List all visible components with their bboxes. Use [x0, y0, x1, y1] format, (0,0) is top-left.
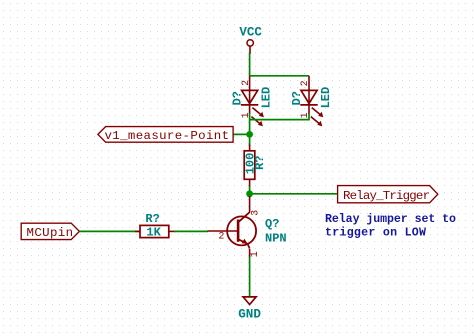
resistor R? 1K [135, 225, 175, 237]
power symbol VCC [239, 26, 262, 55]
global label MCUpin [21, 223, 79, 240]
svg-text:D?: D? [230, 91, 244, 105]
note text: relay jumper comment [325, 213, 456, 240]
wire emitter down to GND [249, 257, 251, 297]
svg-text:2: 2 [241, 80, 252, 86]
wire 1K to transistor base [174, 230, 208, 232]
junction at measure node [246, 131, 253, 138]
wire R bottom to relay node [249, 186, 251, 194]
svg-text:trigger on LOW: trigger on LOW [325, 227, 426, 240]
svg-text:2: 2 [300, 80, 311, 86]
LED D? (right) symbol [300, 76, 323, 126]
svg-text:GND: GND [238, 308, 261, 322]
svg-text:1K: 1K [146, 225, 161, 239]
power symbol GND [238, 297, 261, 322]
svg-text:1: 1 [250, 251, 261, 257]
svg-text:R?: R? [253, 155, 267, 169]
svg-text:LED: LED [319, 87, 333, 109]
svg-text:2: 2 [218, 232, 224, 243]
wire MCUpin to 1K resistor [79, 230, 140, 232]
junction at relay node [246, 190, 253, 197]
svg-text:Relay_Trigger: Relay_Trigger [343, 189, 430, 203]
wire relay node to Relay_Trigger label [250, 193, 338, 195]
svg-text:D?: D? [290, 91, 304, 105]
svg-text:Relay jumper set to: Relay jumper set to [325, 213, 456, 226]
wire LED cathodes bottom horizontal [250, 113, 309, 120]
svg-text:Q?: Q? [265, 217, 279, 231]
global label Relay_Trigger [338, 186, 438, 203]
wire left cathode down to measure node [249, 113, 251, 146]
resistor R? 100 [244, 145, 255, 188]
wire from label to measure node [233, 133, 250, 135]
svg-text:MCUpin: MCUpin [27, 226, 74, 240]
svg-text:R?: R? [145, 212, 159, 226]
wire VCC stem down to LED branch [249, 53, 251, 76]
LED D? (left) symbol [241, 76, 264, 126]
transistor Q? NPN [208, 196, 257, 258]
svg-text:VCC: VCC [239, 26, 262, 40]
svg-text:LED: LED [259, 87, 273, 109]
svg-text:3: 3 [251, 210, 262, 216]
global label v1_measure-Point [98, 127, 233, 143]
svg-text:v1_measure-Point: v1_measure-Point [105, 129, 230, 143]
svg-text:NPN: NPN [265, 232, 287, 246]
wire LED branch top horizontal [250, 75, 309, 77]
